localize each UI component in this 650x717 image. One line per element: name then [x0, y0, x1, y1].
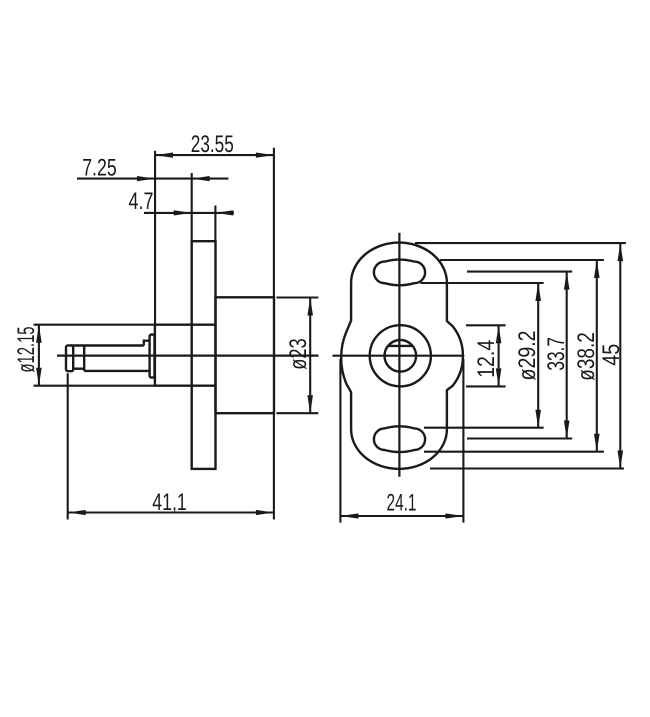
dim line 33.7: [566, 272, 568, 439]
ext line 41.1 right: [273, 413, 275, 519]
horizontal centerline front view: [333, 355, 465, 357]
ext line flange right: [214, 206, 216, 242]
arrow 41.1 left: [68, 510, 86, 515]
dim line d12.15: [38, 325, 40, 386]
arrow d29.2 down: [535, 410, 541, 428]
dim line 45: [619, 243, 621, 468]
arrow d29.2 up: [535, 283, 541, 301]
center hole circle: [385, 340, 417, 372]
arrow 12.4 down: [496, 368, 502, 386]
pin groove right edge: [83, 346, 85, 371]
arrow 33.7 down: [564, 421, 570, 439]
dim line d38.2: [596, 260, 598, 452]
ext line d12.15 top: [34, 324, 155, 326]
ext line flange left: [191, 173, 193, 241]
svg-text:41,1: 41,1: [152, 489, 187, 516]
body (Ø23 cylinder): [216, 297, 275, 413]
arrow 4.7 left-pointing: [215, 210, 233, 215]
svg-text:7.25: 7.25: [82, 154, 117, 181]
svg-text:33.7: 33.7: [543, 337, 570, 371]
collar (Ø12.15 body): [155, 325, 216, 386]
ext line d23 bottom: [277, 412, 319, 414]
ext line d29.2 bottom: [424, 427, 544, 429]
dim line d29.2: [537, 283, 539, 428]
ext line d38.2 top: [440, 259, 604, 261]
bottom slot: [374, 426, 425, 452]
ext line 33.7 top: [467, 271, 572, 273]
boss outer circle: [370, 325, 431, 386]
dim line 12.4: [498, 325, 500, 386]
arrow 45 down: [618, 451, 624, 469]
svg-text:ø23: ø23: [285, 338, 312, 370]
pin groove bottom: [73, 368, 84, 370]
flange plate (side view): [192, 241, 216, 469]
arrow 12.4 up: [496, 325, 502, 343]
ext line d23 top: [277, 296, 319, 298]
arrow 45 up: [618, 243, 624, 261]
flange outline front view: [341, 243, 463, 469]
vertical centerline front view: [398, 233, 400, 477]
top slot: [374, 260, 425, 286]
arrow 4.7 right-pointing: [174, 210, 192, 215]
ext line 45 bottom: [430, 467, 624, 469]
arrow d23 up: [307, 298, 313, 316]
ext line 12.4 top: [466, 324, 506, 326]
svg-text:24.1: 24.1: [387, 490, 417, 517]
center hole flat chord: [388, 345, 413, 347]
arrow d23 down: [307, 395, 313, 413]
arrow 24.1 left: [340, 513, 358, 518]
ext line 24.1 right: [462, 359, 464, 523]
ext line d38.2 bottom: [424, 451, 604, 453]
dim line 7.25: [77, 178, 228, 180]
dim line d23: [309, 298, 311, 414]
arrow 23.55 left: [155, 153, 173, 158]
ext line 41.1 left: [67, 373, 69, 519]
arrow 41.1 right: [256, 510, 274, 515]
arrow 23.55 right: [256, 153, 274, 158]
ext line 33.7 bottom: [467, 437, 572, 439]
dim line 4.7: [144, 212, 234, 214]
svg-text:23.55: 23.55: [191, 131, 234, 158]
pin shaft bottom: [84, 370, 150, 372]
dim line 24.1: [340, 515, 463, 517]
svg-text:45: 45: [598, 344, 625, 366]
svg-text:ø12.15: ø12.15: [13, 327, 40, 373]
centerline left view: [57, 355, 319, 357]
svg-text:ø38.2: ø38.2: [573, 332, 600, 381]
ext line 24.1 left: [339, 359, 341, 523]
arrow d12.15 up: [36, 325, 42, 343]
arrow d38.2 up: [594, 260, 600, 278]
ext line d12.15 bottom: [34, 385, 155, 387]
ext line d29.2 top: [421, 282, 544, 284]
arrow 7.25 left-pointing: [192, 176, 210, 181]
ext line 23.55 left / collar face: [154, 151, 156, 325]
pin tip cap: [66, 345, 73, 371]
arrow 7.25 right-pointing: [137, 176, 155, 181]
svg-text:4.7: 4.7: [129, 188, 154, 215]
dim line 23.55: [155, 154, 274, 156]
washer: [150, 335, 155, 378]
ext line 45 top: [415, 242, 626, 244]
ext line 12.4 bottom: [466, 385, 506, 387]
arrow 33.7 up: [564, 272, 570, 290]
svg-text:12.4: 12.4: [473, 340, 500, 378]
arrow d38.2 down: [594, 434, 600, 452]
pin step: [144, 341, 151, 346]
dim line 41.1: [68, 511, 274, 513]
arrow d12.15 down: [36, 368, 42, 386]
pin shaft top: [71, 344, 144, 346]
arrow 24.1 right: [445, 513, 463, 518]
svg-text:ø29.2: ø29.2: [514, 331, 541, 381]
ext line body right: [273, 148, 275, 297]
